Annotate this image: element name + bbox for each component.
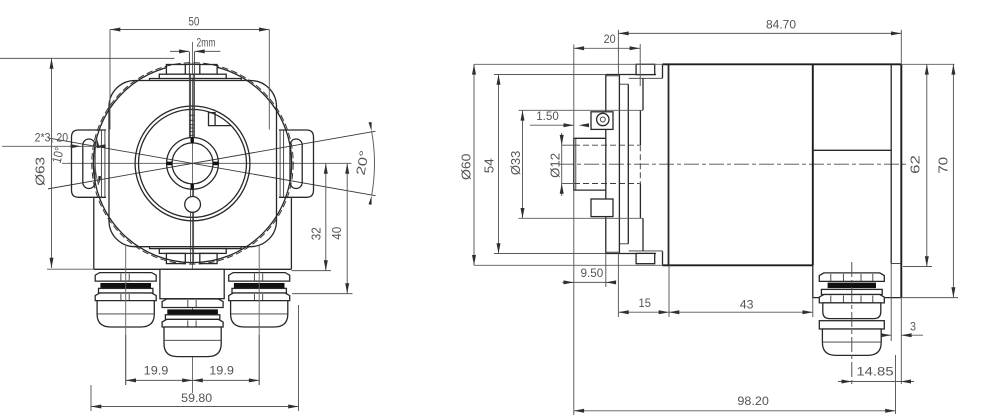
side view centerline bbox=[559, 163, 908, 165]
dim 20 ext line bbox=[639, 44, 641, 86]
dim 54 dim line bbox=[498, 75, 500, 254]
left ear inner edge lines bbox=[100, 130, 102, 197]
dim 1.50 line bbox=[530, 124, 574, 126]
top slot inner lines bbox=[190, 74, 192, 137]
shaft bbox=[574, 138, 606, 190]
dim 3 ext lines bbox=[890, 264, 892, 342]
dim 59.80 ext lines bbox=[90, 385, 92, 411]
body front rim top bbox=[662, 64, 664, 78]
front 10deg ray upper-left to lower-right bbox=[48, 131, 376, 189]
dim 43 ext line bbox=[812, 298, 814, 317]
gland centerline left bbox=[125, 246, 127, 385]
dim 62 ext lines bbox=[901, 63, 954, 65]
svg-text:14.85: 14.85 bbox=[856, 365, 894, 379]
rear cover inner line bbox=[890, 64, 892, 263]
dim 43 line bbox=[669, 311, 813, 313]
shaft end inner line bbox=[575, 138, 577, 190]
svg-text:62: 62 bbox=[908, 155, 922, 174]
body rear divider bbox=[812, 64, 814, 265]
bore end hidden line bbox=[639, 145, 641, 183]
svg-text:50: 50 bbox=[188, 14, 199, 28]
dim 15 line bbox=[618, 311, 669, 313]
gland centerline right bbox=[258, 246, 260, 385]
dia 12 ext lines bbox=[562, 144, 574, 146]
flange notch bbox=[209, 113, 232, 126]
body bottom edge bbox=[663, 264, 813, 266]
dim 9.50 ext lines bbox=[573, 190, 575, 415]
body front face bbox=[668, 64, 670, 265]
angle 10 arc bbox=[95, 139, 99, 185]
svg-text:59.80: 59.80 bbox=[181, 391, 212, 405]
front view vertical centerline bbox=[192, 42, 194, 393]
bottom cap plate bbox=[159, 249, 226, 254]
front 10deg ray lower-left to upper-right bbox=[48, 138, 376, 196]
right mounting ear bbox=[279, 130, 314, 197]
rear lower box bbox=[813, 265, 901, 297]
svg-text:84.70: 84.70 bbox=[766, 17, 796, 31]
dia 60 dim line bbox=[473, 64, 475, 265]
svg-text:32: 32 bbox=[310, 227, 324, 240]
clamp ring outer circle bbox=[167, 138, 219, 190]
clamp notch top bbox=[191, 137, 194, 143]
svg-text:2*3, 20: 2*3, 20 bbox=[35, 130, 69, 144]
dim 98.20 line bbox=[574, 410, 896, 412]
svg-text:3: 3 bbox=[910, 320, 916, 334]
dim 54 ext lines bbox=[494, 74, 606, 76]
svg-text:Ø63: Ø63 bbox=[33, 157, 48, 186]
flange square body bbox=[109, 81, 277, 247]
flange circle inner bbox=[139, 109, 247, 217]
dim 62 dim line bbox=[926, 64, 928, 266]
dim 15 ext lines bbox=[617, 254, 619, 318]
dia 33 dim line bbox=[522, 110, 524, 218]
left mounting ear bbox=[72, 130, 107, 197]
center gland pedestal bbox=[160, 269, 224, 298]
rear body circle bbox=[93, 64, 291, 262]
cable gland center bbox=[162, 299, 223, 308]
dim 19.9 ext lines bbox=[125, 335, 127, 385]
bottom cap right block bbox=[200, 253, 217, 263]
clamp notch left bbox=[167, 162, 173, 166]
bottom cap left block bbox=[166, 253, 185, 263]
clamp ring rear face bbox=[627, 84, 629, 244]
servo flange plate bbox=[642, 78, 644, 110]
body top edge bbox=[663, 63, 902, 65]
rear compartment step bbox=[813, 149, 891, 151]
svg-text:15: 15 bbox=[639, 296, 652, 310]
svg-text:19.9: 19.9 bbox=[209, 363, 234, 377]
clamp screw boss bottom bbox=[591, 199, 613, 217]
dim 32 ext bbox=[292, 270, 332, 272]
side gland centerline bbox=[851, 262, 853, 384]
clamp ring step top bbox=[619, 83, 628, 85]
front view horizontal centerline bbox=[62, 162, 352, 164]
angle 20 arc bbox=[372, 131, 375, 196]
top slot outer lines bbox=[188, 52, 190, 137]
left ear arc slot bbox=[83, 139, 95, 189]
dim 32 line bbox=[325, 163, 327, 270]
svg-text:98.20: 98.20 bbox=[737, 394, 769, 408]
bottom slot lines bbox=[190, 189, 192, 263]
dim 20 line bbox=[574, 47, 640, 49]
top slot ticks bbox=[189, 114, 194, 116]
dim 84.70 ext lines bbox=[617, 30, 619, 75]
svg-text:43: 43 bbox=[740, 297, 754, 311]
top cap step right bbox=[226, 79, 241, 81]
clamp ring step bottom bbox=[619, 243, 628, 245]
bottom foot block bbox=[94, 197, 292, 269]
dim 50 line bbox=[110, 29, 269, 31]
svg-text:54: 54 bbox=[482, 158, 496, 173]
dim 59.80 line bbox=[91, 406, 299, 408]
svg-text:40: 40 bbox=[330, 227, 344, 240]
rear cover bottom join bbox=[891, 263, 901, 265]
dia 33 ext lines bbox=[519, 109, 644, 111]
clamp notch right bbox=[213, 162, 219, 166]
clamp top block bbox=[636, 64, 655, 74]
dia 63 bottom extension bbox=[47, 268, 94, 270]
clamp bottom block bbox=[636, 253, 655, 263]
svg-text:Ø12: Ø12 bbox=[547, 153, 562, 178]
svg-text:Ø60: Ø60 bbox=[458, 154, 473, 181]
body front rim bottom bbox=[662, 251, 664, 265]
svg-text:70: 70 bbox=[936, 157, 950, 174]
top cap plate bbox=[159, 74, 226, 78]
clamp screw circle bbox=[597, 113, 609, 125]
dim 98.20 ext line bbox=[895, 355, 897, 414]
clamp ring bottom edge bbox=[606, 253, 656, 255]
dim 70 ext line bbox=[902, 297, 958, 299]
svg-text:10°: 10° bbox=[49, 145, 67, 164]
dia 63 dim line bbox=[51, 58, 53, 268]
svg-text:2mm: 2mm bbox=[197, 35, 216, 49]
set screw circle bbox=[185, 197, 201, 213]
dim 2mm line bbox=[170, 50, 189, 52]
dim 14.85 line bbox=[838, 381, 914, 383]
shaft bore hidden lines bbox=[574, 144, 640, 146]
top cap right block bbox=[200, 65, 217, 75]
dia 12 dim line bbox=[561, 133, 563, 196]
clamp notch bottom bbox=[191, 184, 194, 190]
svg-text:1.50: 1.50 bbox=[536, 109, 559, 123]
clamp ring front face bbox=[605, 75, 607, 254]
bottom cap step right bbox=[226, 247, 241, 249]
shaft bore circle bbox=[172, 143, 213, 184]
side cable gland bbox=[819, 273, 884, 282]
right ear arc slot bbox=[290, 139, 302, 189]
dia 63 top extension bbox=[0, 57, 175, 59]
dim 84.70 line bbox=[618, 32, 901, 34]
cable gland right bbox=[229, 273, 290, 282]
svg-text:19.9: 19.9 bbox=[144, 363, 169, 377]
cable gland left bbox=[95, 273, 156, 282]
dim 3 line bbox=[883, 334, 891, 336]
svg-text:Ø33: Ø33 bbox=[508, 151, 523, 176]
phantom circle dia 63 bbox=[92, 63, 293, 264]
clamp ring outer face bbox=[618, 75, 620, 253]
dim 1.50 ext bbox=[573, 45, 575, 139]
label 2x3.20 leader bbox=[2, 145, 103, 147]
dim 19.9 line bbox=[126, 379, 260, 381]
dim 9.50 line bbox=[562, 281, 615, 283]
dim 40 line bbox=[346, 163, 348, 293]
flange pilot spigot face bbox=[639, 110, 641, 145]
flange circle outer bbox=[135, 106, 250, 221]
rear cover outer face bbox=[900, 64, 902, 297]
dim 70 dim line bbox=[952, 64, 954, 297]
bottom cap step left bbox=[150, 247, 160, 249]
dim 40 ext bbox=[292, 293, 353, 295]
clamp ring top edge bbox=[606, 74, 656, 76]
right ear inner edge lines bbox=[283, 130, 285, 197]
svg-text:20°: 20° bbox=[354, 149, 372, 176]
clamp screw boss top bbox=[591, 112, 613, 130]
svg-text:20: 20 bbox=[604, 32, 616, 46]
svg-text:9.50: 9.50 bbox=[581, 266, 604, 280]
dia 60 ext lines bbox=[474, 63, 663, 65]
top cap step left bbox=[150, 79, 160, 81]
dim 50 extension lines bbox=[109, 30, 111, 130]
top cap left block bbox=[166, 65, 185, 75]
